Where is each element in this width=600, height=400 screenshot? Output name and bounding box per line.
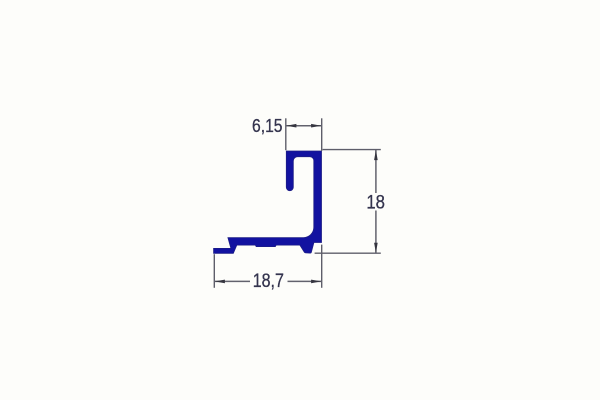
svg-text:18: 18	[366, 192, 385, 214]
dimension 6,15 : right extension line	[321, 118, 323, 151]
dimension 18,7 : left extension line	[213, 254, 215, 288]
svg-text:18,7: 18,7	[253, 270, 284, 292]
dimension 18 : dimension line lower segment	[375, 211, 377, 253]
dimension 18,7 : dimension line left segment	[215, 280, 250, 282]
dimension 18,7 : right extension line	[321, 245, 323, 288]
dimension 18 : top arrowhead	[374, 150, 378, 160]
dimension 18 : top extension line	[323, 149, 381, 151]
dimension 18,7 : right arrowhead	[311, 280, 321, 284]
dimension 6,15 : left extension line	[285, 118, 287, 150]
dimension 6,15 : dimension line	[286, 125, 321, 127]
dimension 18 : bottom arrowhead	[374, 243, 378, 253]
svg-text:6,15: 6,15	[252, 116, 283, 136]
dimension 18 : bottom extension line	[315, 252, 381, 254]
dimension 6,15 : right arrowhead	[311, 124, 321, 128]
dimension 18,7 : dimension line right segment	[288, 280, 322, 282]
dimension 18 : dimension line upper segment	[375, 150, 377, 193]
aluminium profile cross-section (blue body)	[214, 151, 322, 253]
dimension 6,15 : left arrowhead	[286, 124, 296, 128]
dimension 18,7 : left arrowhead	[215, 280, 225, 284]
